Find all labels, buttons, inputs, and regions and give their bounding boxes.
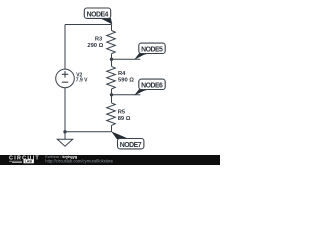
svg-text:NODE6: NODE6: [141, 83, 163, 90]
svg-text:http://circuitlab.com/cymurafi: http://circuitlab.com/cymurafiloksitwe: [45, 158, 114, 163]
svg-text:R3: R3: [95, 37, 103, 43]
svg-text:R5: R5: [118, 110, 126, 116]
svg-text:NODE4: NODE4: [87, 12, 109, 19]
svg-text:R4: R4: [118, 71, 126, 77]
svg-text:89 Ω: 89 Ω: [118, 116, 131, 122]
svg-text:LAB: LAB: [25, 160, 33, 164]
svg-text:NODE7: NODE7: [120, 142, 142, 149]
svg-text:590 Ω: 590 Ω: [118, 77, 134, 83]
svg-text:290 Ω: 290 Ω: [87, 43, 103, 49]
svg-text:NODE5: NODE5: [141, 47, 163, 54]
svg-text:7.9 V: 7.9 V: [76, 78, 88, 84]
